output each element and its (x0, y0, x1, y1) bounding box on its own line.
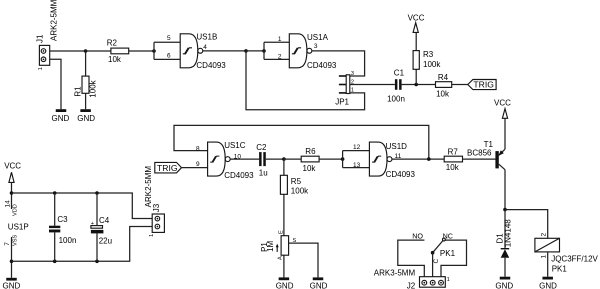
resistor R3 (413, 32, 441, 84)
junction C4 top (95, 191, 99, 195)
svg-text:7: 7 (4, 242, 11, 246)
svg-text:9: 9 (196, 161, 200, 168)
wire VCC rail (12, 193, 153, 219)
svg-text:JP1: JP1 (335, 97, 349, 106)
junction C3 bottom (53, 260, 57, 264)
svg-text:10k: 10k (436, 89, 450, 98)
svg-text:TRIG: TRIG (157, 163, 178, 173)
svg-text:CD4093: CD4093 (224, 171, 254, 180)
svg-text:1: 1 (149, 234, 155, 237)
junction US1A input split (262, 49, 266, 53)
ground (wiper S) (310, 277, 328, 289)
svg-text:TRIG: TRIG (473, 80, 494, 90)
svg-text:R2: R2 (107, 38, 118, 47)
svg-text:100k: 100k (423, 60, 441, 69)
junction US1D input split (341, 157, 345, 161)
svg-text:R6: R6 (305, 147, 316, 156)
wire GND rail (12, 227, 153, 262)
ground (R1) (77, 109, 95, 123)
junction C4 bottom (95, 260, 99, 264)
wire input split (153, 42, 155, 59)
svg-text:C3: C3 (57, 215, 68, 224)
svg-text:14: 14 (5, 200, 12, 208)
svg-text:S: S (293, 238, 297, 244)
svg-text:ARK2-5MM: ARK2-5MM (50, 0, 59, 41)
svg-text:PK1: PK1 (440, 249, 456, 258)
svg-text:VDD: VDD (13, 204, 19, 216)
svg-text:VCC: VCC (4, 162, 21, 171)
svg-text:C1: C1 (394, 69, 405, 78)
svg-text:12: 12 (353, 144, 361, 151)
relay switch arm (433, 241, 443, 253)
wire R4 to TRIG flag (452, 84, 468, 86)
svg-text:1: 1 (38, 67, 44, 70)
junction at R3 bottom (414, 83, 418, 87)
svg-text:13: 13 (353, 162, 361, 169)
svg-text:A: A (277, 256, 283, 260)
wire R7 to T1 base (463, 158, 496, 160)
svg-text:8: 8 (196, 145, 200, 152)
transistor Q1: T1 BC856 (467, 140, 505, 170)
wire US1A out to JP1 pin3 (312, 51, 365, 76)
svg-text:10k: 10k (303, 164, 317, 173)
svg-text:100k: 100k (291, 186, 309, 195)
svg-text:GND: GND (539, 282, 557, 289)
svg-text:2: 2 (278, 54, 282, 61)
capacitor C4 (polarized) (91, 193, 112, 261)
resistor R5 (280, 159, 309, 236)
svg-text:100n: 100n (59, 236, 77, 245)
wire R2 to US1B inputs (129, 50, 154, 52)
svg-text:US1A: US1A (307, 33, 329, 42)
svg-text:US1D: US1D (386, 142, 408, 151)
svg-text:100k: 100k (89, 79, 98, 97)
svg-text:1: 1 (278, 36, 282, 43)
nand US1A (278, 33, 337, 70)
svg-text:NO: NO (412, 231, 423, 240)
wire US1B out (203, 50, 246, 52)
svg-text:5: 5 (167, 35, 171, 42)
svg-text:US1C: US1C (224, 141, 246, 150)
net label TRIG (right) (468, 80, 496, 90)
connector J3 (149, 203, 164, 237)
wire US1D out (392, 158, 444, 160)
svg-text:C2: C2 (256, 143, 267, 152)
svg-text:ARK2-5MM: ARK2-5MM (144, 166, 153, 208)
junction bottom rail (10, 260, 14, 264)
ground (P1) (276, 277, 294, 289)
svg-text:JQC3FF/12V: JQC3FF/12V (551, 254, 598, 263)
svg-text:R4: R4 (438, 73, 449, 82)
svg-text:1u: 1u (259, 168, 268, 177)
wire JP1 pin2 to C1 (350, 84, 395, 86)
junction after US1B (244, 49, 248, 53)
svg-text:1: 1 (541, 255, 548, 259)
svg-text:6: 6 (167, 52, 171, 59)
wire to US1A (246, 50, 264, 52)
svg-text:VCC: VCC (494, 99, 511, 108)
jumper JP1 (335, 71, 354, 107)
ground (D1) (495, 277, 513, 289)
wire US1C out to C2 (230, 158, 259, 160)
wire emitter to VCC (504, 118, 506, 149)
resistor R4 (436, 73, 452, 98)
svg-text:2: 2 (541, 233, 548, 237)
diode D1 1N4148 (495, 210, 512, 277)
svg-text:GND: GND (3, 282, 21, 289)
svg-text:VSS: VSS (13, 235, 19, 246)
connector J1 (36, 34, 50, 70)
power VCC (US1P) (4, 162, 21, 183)
wire collector down (504, 170, 506, 210)
wire C1 to R4 (through junction) (402, 84, 436, 86)
power VCC (T1) (494, 99, 511, 119)
svg-text:R1: R1 (73, 86, 82, 97)
svg-text:E: E (278, 230, 284, 234)
svg-text:10k: 10k (108, 55, 122, 64)
svg-text:C4: C4 (99, 216, 110, 225)
svg-text:R7: R7 (448, 148, 459, 157)
svg-text:CD4093: CD4093 (307, 61, 337, 70)
svg-text:100n: 100n (387, 95, 405, 104)
wire TRIG to pin9 (182, 167, 208, 169)
capacitor C3 (49, 193, 76, 261)
relay contact NO wire (398, 240, 425, 277)
svg-text:+: + (91, 221, 94, 227)
op-amp U1: nand US1B (167, 32, 226, 70)
ground (US1P) (3, 278, 21, 289)
svg-text:GND: GND (495, 282, 513, 289)
svg-text:R3: R3 (423, 50, 434, 59)
wire node to relay coil (505, 210, 548, 239)
wire JP1 pin1 back to node after US1B (246, 51, 365, 110)
junction top rail (10, 191, 14, 195)
svg-text:GND: GND (310, 282, 328, 289)
wire VCC to VDD pin (11, 182, 13, 209)
svg-text:US1B: US1B (196, 32, 217, 41)
nand US1D (353, 142, 416, 179)
svg-text:4: 4 (203, 44, 207, 51)
svg-text:GND: GND (77, 114, 95, 123)
resistor R2 (107, 38, 129, 64)
svg-text:J2: J2 (407, 281, 416, 289)
wire J1 pin2 to GND (50, 59, 61, 109)
svg-text:22u: 22u (99, 237, 112, 246)
svg-text:3: 3 (351, 71, 354, 77)
svg-text:R5: R5 (291, 177, 302, 186)
svg-text:1: 1 (351, 87, 354, 93)
resistor R7 (444, 148, 462, 173)
svg-text:GND: GND (276, 282, 294, 289)
svg-text:C: C (433, 259, 440, 264)
capacitor C1 (387, 69, 405, 104)
wire R6 to US1D inputs (319, 158, 343, 160)
capacitor C2 (256, 143, 268, 177)
svg-text:CD4093: CD4093 (196, 61, 226, 70)
junction C3 top (53, 191, 57, 195)
svg-text:1N4148: 1N4148 (503, 219, 512, 248)
wire J1 pin1 to node (50, 50, 86, 52)
svg-text:BC856: BC856 (467, 149, 492, 158)
svg-text:10k: 10k (446, 163, 460, 172)
potentiometer P1 (260, 230, 318, 277)
junction C2/R5/R6 (282, 157, 286, 161)
node A junction (84, 49, 88, 53)
svg-text:PK1: PK1 (552, 264, 568, 273)
nand US1C (196, 141, 254, 180)
relay contact NC wire (441, 240, 467, 277)
svg-text:VCC: VCC (408, 13, 425, 22)
US1P pin 7 VSS (11, 237, 13, 278)
svg-text:GND: GND (52, 114, 70, 123)
svg-text:US1P: US1P (8, 223, 29, 232)
wire C2 to junction (266, 158, 284, 160)
svg-text:ARK3-5MM: ARK3-5MM (374, 269, 416, 278)
svg-text:CD4093: CD4093 (386, 170, 416, 179)
svg-text:J1: J1 (36, 34, 45, 43)
connector J2 ARK3-5MM (374, 269, 450, 289)
ground (PK1) (539, 277, 557, 289)
junction US1B input split (152, 49, 156, 53)
relay coil PK1 JQC3FF/12V (535, 233, 599, 274)
junction feedback (427, 157, 431, 161)
net label TRIG (at US1C pin 9) (155, 162, 182, 173)
ground (J1) (52, 109, 70, 123)
wire relay to GND (547, 252, 549, 277)
wire node to R2 (86, 50, 111, 52)
svg-text:1: 1 (447, 277, 450, 283)
resistor R6 (301, 147, 319, 173)
resistor R1 (73, 51, 97, 109)
wire feedback from US1D out to US1C pin8 (174, 125, 429, 159)
svg-text:3: 3 (314, 43, 318, 50)
junction collector node (503, 208, 507, 212)
relay contact NC terminal (443, 238, 446, 241)
svg-text:1M: 1M (266, 240, 275, 251)
relay common pivot (431, 251, 435, 255)
power VCC (R3) (408, 13, 425, 32)
